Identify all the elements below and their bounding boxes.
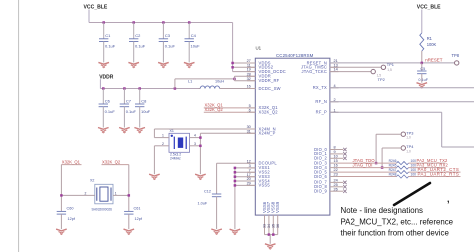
svg-text:R247: R247 bbox=[389, 168, 397, 172]
pin 14 JTAG_TCKC (right) bbox=[301, 68, 338, 74]
wire DCOUPL bbox=[217, 163, 256, 194]
pin 2 of X1 bbox=[154, 142, 169, 174]
svg-text:C4: C4 bbox=[191, 33, 197, 38]
svg-text:100: 100 bbox=[411, 164, 417, 168]
pin 16 DIO_4 (right) bbox=[314, 164, 338, 170]
svg-text:0.1uF: 0.1uF bbox=[105, 109, 116, 114]
svg-text:23: 23 bbox=[334, 173, 338, 177]
node VSS bus junction VSS1 bbox=[234, 167, 237, 170]
wire C60 to ground bbox=[60, 214, 62, 229]
svg-text:VSS5: VSS5 bbox=[259, 183, 271, 188]
svg-text:TP3: TP3 bbox=[406, 130, 413, 135]
ground under C7 bbox=[119, 128, 130, 133]
svg-text:7: 7 bbox=[249, 168, 251, 172]
svg-text:C12: C12 bbox=[204, 189, 211, 193]
svg-text:2: 2 bbox=[85, 191, 87, 195]
pin 2 of X2 bbox=[61, 191, 94, 195]
capacitor C1 bbox=[99, 33, 116, 48]
annotation arrow bbox=[394, 183, 430, 205]
wire JTAG_TMSC bbox=[330, 66, 381, 68]
pin 35 VSS8 (bottom) bbox=[271, 201, 276, 234]
svg-text:20: 20 bbox=[247, 177, 251, 181]
net label X32K_Q2 (X2) bbox=[102, 159, 129, 164]
node RESET junction bbox=[421, 62, 424, 65]
net label PA2_MCU_TX2 bbox=[417, 158, 449, 163]
pin 6 X32K_Q2 (left) bbox=[247, 108, 278, 114]
node VDDS junction bbox=[231, 62, 234, 65]
wire VCC_BLE bus bbox=[89, 22, 233, 24]
svg-text:R245: R245 bbox=[389, 164, 397, 168]
svg-text:RF_P: RF_P bbox=[316, 110, 327, 115]
net label PA0_UART2_CTS bbox=[418, 167, 460, 172]
pin 1 of X1 bbox=[154, 134, 169, 138]
node VSS8 joint bbox=[272, 233, 275, 236]
net label PA1_UART2_RTS bbox=[418, 172, 460, 177]
svg-text:Note - line designations: Note - line designations bbox=[341, 206, 424, 215]
node VDDS2 junction bbox=[231, 66, 234, 69]
wire RX_TX bbox=[330, 87, 474, 89]
node C3 junction bbox=[162, 21, 165, 24]
wire C6 lower bbox=[102, 107, 104, 128]
svg-text:1,0: 1,0 bbox=[406, 136, 411, 140]
ic U1 reference bbox=[256, 46, 262, 51]
svg-text:0.1uF: 0.1uF bbox=[105, 43, 116, 48]
pin 10 DIO_2 (right) bbox=[314, 154, 338, 160]
ground under C3 bbox=[158, 62, 169, 67]
pin 4 RX_TX (right) bbox=[313, 84, 339, 90]
capacitor C12 bbox=[198, 189, 222, 205]
svg-text:R1: R1 bbox=[427, 36, 433, 41]
svg-text:10uH: 10uH bbox=[215, 80, 224, 84]
svg-text:35: 35 bbox=[272, 224, 276, 228]
svg-text:16: 16 bbox=[334, 164, 338, 168]
crystal X2 bbox=[90, 179, 113, 212]
svg-text:SH032000026: SH032000026 bbox=[92, 207, 113, 211]
svg-text:12: 12 bbox=[247, 159, 251, 163]
ground VSS bus bbox=[230, 229, 241, 234]
svg-text:25: 25 bbox=[334, 183, 338, 187]
wire VDDR bus bbox=[100, 88, 198, 90]
svg-text:PA1_UART2_RTS: PA1_UART2_RTS bbox=[418, 172, 460, 177]
resistor R1 bbox=[420, 33, 437, 51]
pin 11 VDDS2 (left) bbox=[247, 63, 274, 69]
testpoint TP3 bbox=[401, 130, 413, 139]
svg-text:C5: C5 bbox=[420, 67, 425, 71]
wire RF_N bbox=[330, 101, 474, 103]
svg-text:22: 22 bbox=[334, 168, 338, 172]
svg-text:X32K_Q2: X32K_Q2 bbox=[259, 110, 279, 115]
pin 13 JTAG_TMSC (right) bbox=[301, 63, 339, 69]
pin 17 VSS3 (left) bbox=[247, 173, 271, 179]
pin 30 X24M_N (left) bbox=[247, 125, 276, 131]
wire R1 to RESET row bbox=[421, 51, 423, 63]
capacitor C4 bbox=[185, 33, 201, 48]
wire C4 lower bbox=[188, 42, 190, 63]
svg-text:0.1uF: 0.1uF bbox=[126, 109, 137, 114]
pin 4 of X1 bbox=[190, 134, 201, 138]
svg-text:12pf: 12pf bbox=[68, 217, 76, 221]
no-connect at y153.9 bbox=[339, 152, 347, 155]
svg-text:nRESET: nRESET bbox=[425, 58, 442, 63]
pin 28 VDDR (left) bbox=[247, 72, 271, 78]
node C8 junction bbox=[138, 87, 141, 90]
capacitor C7 bbox=[120, 99, 137, 114]
annotation note text bbox=[341, 206, 454, 238]
svg-text:33: 33 bbox=[263, 224, 267, 228]
pin 1 RF_P (right) bbox=[316, 108, 339, 114]
wire C5 top bbox=[421, 63, 423, 71]
pin 27 VDDS (left) bbox=[247, 59, 271, 65]
svg-text:6: 6 bbox=[249, 108, 251, 112]
svg-text:JTAG_TDI: JTAG_TDI bbox=[353, 163, 373, 168]
wire VSS6-9 joiner bbox=[265, 234, 278, 236]
node VDDR pin tap bbox=[233, 78, 236, 81]
svg-text:10: 10 bbox=[334, 154, 338, 158]
ground under C12 bbox=[211, 229, 222, 234]
wire C61 to ground bbox=[128, 214, 130, 229]
no-connect at y182.4 bbox=[339, 181, 347, 184]
svg-text:X1: X1 bbox=[170, 129, 174, 133]
testpoint TP8 bbox=[452, 53, 460, 65]
svg-text:DIO_6: DIO_6 bbox=[314, 174, 327, 179]
svg-text:C8: C8 bbox=[141, 99, 147, 104]
net label X32K_Q2 (at U1) bbox=[204, 107, 256, 112]
annotation comma bbox=[447, 194, 450, 204]
pin 24 DIO_7 (right) bbox=[314, 179, 338, 185]
svg-text:19: 19 bbox=[247, 68, 251, 72]
wire X24M_P bbox=[200, 133, 255, 174]
pin 32 VDDR_RF (left) bbox=[247, 77, 280, 83]
node X1 pin3 junction bbox=[199, 145, 202, 148]
node VSS bus junction VSS4 bbox=[234, 180, 237, 183]
pin 19 VDDS_DCDC (left) bbox=[247, 68, 286, 74]
svg-text:X32K_Q1: X32K_Q1 bbox=[62, 159, 81, 164]
svg-text:36: 36 bbox=[276, 224, 280, 228]
svg-text:VSS9: VSS9 bbox=[275, 201, 280, 213]
pin 33 VSS6 (bottom) bbox=[262, 201, 267, 234]
pin 3 VSS1 (left) bbox=[247, 164, 270, 170]
wire VSS4 row bbox=[235, 180, 255, 182]
svg-text:2: 2 bbox=[162, 142, 164, 146]
ic U1 title bbox=[276, 53, 314, 58]
node C2 junction bbox=[132, 21, 135, 24]
svg-text:10uF: 10uF bbox=[141, 109, 151, 114]
wire VSS2 row bbox=[235, 171, 255, 173]
testpoint TP2 bbox=[371, 69, 385, 82]
svg-text:C2: C2 bbox=[135, 33, 141, 38]
ground under U1 bottom bbox=[265, 244, 276, 249]
svg-text:,: , bbox=[447, 194, 450, 204]
svg-text:24MHz: 24MHz bbox=[170, 157, 181, 161]
no-connect at y158.3 bbox=[339, 157, 347, 160]
node X1 pin4 junction bbox=[199, 136, 202, 139]
svg-text:C7: C7 bbox=[126, 99, 132, 104]
node C6 junction bbox=[102, 87, 105, 90]
svg-text:15: 15 bbox=[334, 159, 338, 163]
svg-text:DIO_9: DIO_9 bbox=[314, 189, 327, 194]
pin 25 DIO_8 (right) bbox=[314, 183, 338, 189]
svg-text:VDDR: VDDR bbox=[99, 74, 114, 80]
pin 36 VSS9 (bottom) bbox=[275, 201, 280, 234]
svg-text:CC2540F128RSM: CC2540F128RSM bbox=[276, 53, 314, 58]
wire X2 right vertical bbox=[128, 165, 130, 212]
svg-text:C6: C6 bbox=[105, 99, 111, 104]
pin 16 DCDC_SW (left) bbox=[247, 85, 281, 91]
node C4 junction bbox=[188, 21, 191, 24]
pin 8 DIO_0 (right) bbox=[314, 146, 338, 152]
wire VSS5 row bbox=[235, 184, 255, 186]
svg-text:VDDR_RF: VDDR_RF bbox=[259, 78, 280, 83]
ground under C61 bbox=[124, 229, 135, 234]
wire C7 lower bbox=[123, 107, 125, 128]
pin 22 DIO_5 (right) bbox=[314, 168, 338, 174]
pin 1 of X2 bbox=[113, 191, 129, 195]
ground under C2 bbox=[128, 62, 139, 67]
node VSS bus junction VSS5 bbox=[234, 184, 237, 187]
svg-text:VCC_BLE: VCC_BLE bbox=[84, 4, 108, 10]
wire VDDR tap up bbox=[175, 79, 235, 89]
wire C2 upper bbox=[133, 23, 135, 39]
node VSS bus junction VSS3 bbox=[234, 175, 237, 178]
net label X32K_Q1 (at U1) bbox=[204, 103, 256, 108]
svg-text:R248: R248 bbox=[389, 173, 397, 177]
node C1 junction bbox=[102, 21, 105, 24]
net label PA3_MCU_RX2 bbox=[417, 163, 449, 168]
pin 29 VSS5 (left) bbox=[247, 182, 271, 188]
wire X24M_N bbox=[154, 129, 255, 138]
wire C8 upper bbox=[139, 89, 141, 105]
capacitor C61 bbox=[124, 206, 143, 221]
svg-text:JTAG_TCKC: JTAG_TCKC bbox=[301, 69, 327, 74]
wire C4 upper bbox=[188, 23, 190, 39]
pin 23 DIO_6 (right) bbox=[314, 173, 338, 179]
resistor R247 bbox=[389, 168, 417, 174]
node X2 pin1 junction bbox=[128, 194, 131, 197]
wire TP4 to DIO_4 bbox=[382, 148, 401, 168]
svg-text:8: 8 bbox=[334, 146, 336, 150]
wire VSS bus vertical bbox=[234, 168, 236, 229]
wire VSS1 row bbox=[235, 167, 255, 169]
svg-text:100: 100 bbox=[411, 173, 417, 177]
pin 2 RF_N (right) bbox=[315, 98, 338, 104]
svg-text:29: 29 bbox=[247, 182, 251, 186]
svg-text:31: 31 bbox=[247, 129, 251, 133]
wire VCC_BLE bus drop to U1 bbox=[232, 23, 234, 72]
svg-text:34: 34 bbox=[267, 224, 271, 228]
ground under C1 bbox=[98, 62, 109, 67]
svg-text:100: 100 bbox=[411, 159, 417, 163]
svg-text:PA2_MCU_TX2, etc... reference: PA2_MCU_TX2, etc... reference bbox=[341, 217, 454, 226]
op-amp U1 body bbox=[255, 58, 330, 215]
svg-text:1,5: 1,5 bbox=[387, 68, 392, 72]
wire to pin VDDR_RF bbox=[235, 79, 256, 81]
svg-text:C60: C60 bbox=[67, 206, 74, 210]
svg-text:TP1: TP1 bbox=[387, 62, 394, 67]
page border (left) bbox=[18, 0, 19, 252]
svg-text:12pf: 12pf bbox=[135, 217, 143, 221]
pin 9 DIO_1 (right) bbox=[314, 150, 338, 156]
capacitor C3 bbox=[159, 33, 176, 48]
node VSS7 joint bbox=[268, 233, 271, 236]
net label JTAG_TDO bbox=[353, 158, 376, 163]
svg-text:0.1uF: 0.1uF bbox=[418, 78, 428, 82]
svg-text:DCDC_SW: DCDC_SW bbox=[259, 86, 281, 91]
wire DIO_6 row bbox=[339, 176, 461, 178]
node TP3 junction bbox=[375, 162, 378, 165]
ground under C6 bbox=[98, 128, 109, 133]
pin 3 of X1 bbox=[190, 142, 201, 146]
power flag VDDR bbox=[99, 74, 114, 88]
svg-text:0.1uF: 0.1uF bbox=[135, 43, 146, 48]
wire to pin VDDS_DCDC bbox=[233, 71, 256, 73]
svg-text:X32K_Q2: X32K_Q2 bbox=[102, 159, 121, 164]
svg-text:3: 3 bbox=[194, 142, 196, 146]
wire to pin VDDR bbox=[235, 76, 256, 79]
crystal X1 bbox=[169, 129, 190, 161]
svg-text:C1: C1 bbox=[105, 33, 111, 38]
wire DIO_4 row bbox=[339, 167, 446, 169]
pin 12 DCOUPL (left) bbox=[247, 159, 278, 165]
svg-text:1.0uF: 1.0uF bbox=[198, 202, 208, 206]
ground under C4 bbox=[184, 62, 195, 67]
wire JTAG_TCKC bbox=[330, 71, 371, 73]
capacitor C2 bbox=[129, 33, 146, 48]
testpoint TP4 bbox=[401, 144, 414, 153]
no-connect at y149.5 bbox=[339, 148, 347, 151]
svg-text:4: 4 bbox=[194, 134, 196, 138]
svg-text:their function from other devi: their function from other device bbox=[341, 229, 450, 238]
net label JTAG_TDI bbox=[353, 163, 373, 168]
node X2 pin2 junction bbox=[60, 194, 63, 197]
ground X1 right bbox=[195, 174, 206, 179]
no-connect at y186.8 bbox=[339, 185, 347, 188]
node TP4 junction bbox=[381, 166, 384, 169]
svg-text:28: 28 bbox=[247, 72, 251, 76]
pin 26 DIO_9 (right) bbox=[314, 187, 338, 193]
wire C3 lower bbox=[162, 42, 164, 63]
svg-text:1: 1 bbox=[162, 134, 164, 138]
wire RF_P bbox=[330, 112, 474, 147]
svg-text:TP2: TP2 bbox=[378, 77, 385, 82]
wire C12 to ground bbox=[216, 197, 218, 229]
net label X32K_Q1 (X2) bbox=[61, 159, 81, 164]
capacitor C8 bbox=[135, 99, 151, 114]
pin 5 X32K_Q1 (left) bbox=[247, 104, 278, 110]
no-connect at y191.2 bbox=[339, 190, 347, 193]
pin 20 VSS4 (left) bbox=[247, 177, 271, 183]
svg-text:C61: C61 bbox=[134, 206, 141, 210]
svg-text:RF_N: RF_N bbox=[315, 99, 327, 104]
svg-text:100: 100 bbox=[411, 168, 417, 172]
svg-text:VCC_BLE: VCC_BLE bbox=[417, 4, 441, 10]
svg-text:9: 9 bbox=[334, 150, 336, 154]
svg-text:RX_TX: RX_TX bbox=[313, 85, 327, 90]
svg-text:0.1uF: 0.1uF bbox=[165, 43, 176, 48]
pin 15 DIO_3 (right) bbox=[314, 159, 338, 165]
wire C5 bottom bbox=[421, 74, 423, 83]
svg-text:1: 1 bbox=[115, 191, 117, 195]
svg-text:26: 26 bbox=[334, 187, 338, 191]
capacitor C5 bbox=[417, 67, 429, 82]
svg-text:100K: 100K bbox=[427, 42, 437, 47]
pin 7 VSS2 (left) bbox=[247, 168, 270, 174]
wire RESET_N row bbox=[330, 62, 455, 64]
node C7 junction bbox=[123, 87, 126, 90]
resistor R245 bbox=[389, 164, 417, 170]
svg-text:X24M_P: X24M_P bbox=[259, 131, 276, 136]
ground under C8 bbox=[134, 128, 145, 133]
node VDDR tap junction bbox=[174, 87, 177, 90]
wire DIO_5 row bbox=[339, 171, 461, 173]
ground X1 left bbox=[149, 174, 160, 179]
svg-text:C3: C3 bbox=[165, 33, 171, 38]
power flag VCC_BLE (left) bbox=[84, 4, 108, 22]
wire X2 left vertical bbox=[60, 165, 62, 212]
wire C2 lower bbox=[133, 42, 135, 63]
wire C1 upper bbox=[103, 23, 105, 39]
svg-text:R246: R246 bbox=[389, 159, 397, 163]
ground under C60 bbox=[56, 229, 67, 234]
svg-text:X2: X2 bbox=[90, 179, 94, 183]
svg-text:16: 16 bbox=[247, 85, 251, 89]
wire L1 to DCDC_SW bbox=[221, 88, 255, 90]
pin 31 X24M_P (left) bbox=[247, 129, 276, 135]
resistor R246 bbox=[389, 159, 417, 165]
svg-text:TP8: TP8 bbox=[452, 53, 460, 58]
svg-text:3: 3 bbox=[249, 164, 251, 168]
wire C1 lower bbox=[103, 42, 105, 63]
capacitor C6 bbox=[99, 99, 116, 114]
wire C8 lower bbox=[139, 107, 141, 128]
svg-text:32: 32 bbox=[247, 77, 251, 81]
wire to pin VDDS bbox=[233, 62, 256, 64]
wire VSS joiner to ground bbox=[269, 235, 271, 244]
power flag VCC_BLE (right) bbox=[417, 4, 441, 33]
node VSS bus junction VSS2 bbox=[234, 171, 237, 174]
wire VSS3 row bbox=[235, 176, 255, 178]
svg-text:TP4: TP4 bbox=[406, 144, 414, 149]
wire TP3 to DIO_3 bbox=[376, 134, 401, 163]
wire to pin VDDS2 bbox=[233, 66, 256, 68]
svg-text:L1: L1 bbox=[188, 80, 192, 84]
wire DIO_3 row bbox=[339, 162, 446, 164]
svg-text:U1: U1 bbox=[256, 46, 262, 51]
net label nRESET bbox=[425, 58, 442, 63]
inductor L1 bbox=[188, 80, 224, 89]
pin 34 VSS7 (bottom) bbox=[266, 201, 271, 234]
svg-text:10uF: 10uF bbox=[191, 43, 201, 48]
svg-text:1,0: 1,0 bbox=[406, 149, 411, 153]
wire C3 upper bbox=[162, 23, 164, 39]
ground under C5 bbox=[417, 83, 428, 88]
svg-text:24: 24 bbox=[334, 179, 338, 183]
testpoint TP1 bbox=[381, 62, 394, 72]
wire C6 upper bbox=[102, 89, 104, 105]
wire C7 upper bbox=[123, 89, 125, 105]
svg-text:X32K_Q2: X32K_Q2 bbox=[205, 107, 224, 112]
capacitor C60 bbox=[57, 206, 76, 221]
pin 21 RESET_N (right) bbox=[307, 59, 339, 65]
resistor R248 bbox=[389, 173, 417, 179]
